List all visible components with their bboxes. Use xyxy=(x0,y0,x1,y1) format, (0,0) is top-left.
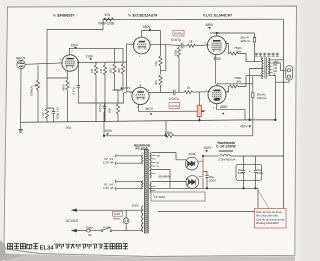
svg-text:487V: 487V xyxy=(204,146,213,150)
wire: jack to EF86 grid xyxy=(25,63,62,64)
svg-text:AC100V: AC100V xyxy=(66,219,79,223)
svg-text:30k: 30k xyxy=(117,68,121,73)
neon lamp NE1 xyxy=(123,210,129,230)
fuse F1 xyxy=(86,229,101,232)
svg-text:3A: 3A xyxy=(88,233,92,237)
capacitor C2 0.47u xyxy=(78,62,79,63)
svg-text:630V: 630V xyxy=(238,171,245,175)
ground symbol xyxy=(18,130,23,133)
resistor R5 20k xyxy=(113,48,116,90)
svg-text:1M: 1M xyxy=(90,68,94,73)
resistor R3 1M xyxy=(94,62,97,121)
svg-text:150k: 150k xyxy=(165,131,172,135)
svg-text:475V: 475V xyxy=(214,57,223,61)
red wire lower rect xyxy=(199,176,203,178)
svg-text:100k(A): 100k(A) xyxy=(30,85,34,96)
svg-text:457V: 457V xyxy=(240,125,249,129)
svg-text:NFB=22dB: NFB=22dB xyxy=(99,22,115,26)
wire: ECC82b plate link xyxy=(149,92,171,94)
tube V2b ECC82 lower xyxy=(131,84,149,104)
wire: OPT top terminal xyxy=(255,58,261,62)
bottom shadow band xyxy=(5,254,295,261)
wire: rectifier bus xyxy=(202,178,204,188)
wire: lower plate line xyxy=(217,84,253,86)
svg-text:15k: 15k xyxy=(154,61,158,66)
wire: EF86 feed sub-rail xyxy=(47,20,103,30)
wire: secondary taps xyxy=(269,60,273,76)
resistor R12 100k xyxy=(177,46,180,93)
svg-text:5W: 5W xyxy=(237,49,242,53)
capacitor block C7 C8 xyxy=(236,156,262,188)
svg-text:khoang 220x400V: khoang 220x400V xyxy=(256,221,279,225)
wire: AC top xyxy=(72,209,143,211)
diode D1 xyxy=(185,157,198,170)
svg-text:0.047μ: 0.047μ xyxy=(169,97,179,101)
wire: 110V row xyxy=(79,44,133,92)
resistor R4 1M xyxy=(103,62,106,122)
svg-text:½ :EF86/6267: ½ :EF86/6267 xyxy=(53,13,74,17)
wire: 300V rail xyxy=(104,135,164,137)
red box lower 0.047u xyxy=(169,103,180,109)
svg-text:1k: 1k xyxy=(189,39,193,43)
svg-text:125mA: 125mA xyxy=(240,39,251,43)
resistor R15 750 lower xyxy=(226,76,253,92)
meter M1 xyxy=(253,33,255,58)
svg-text:0.047μ: 0.047μ xyxy=(174,32,183,36)
wire: B+ link xyxy=(250,119,276,121)
terminal strip FP xyxy=(151,192,205,201)
wire: NFB top line xyxy=(103,18,284,20)
svg-text:0.47μ: 0.47μ xyxy=(98,104,102,112)
corner shadow xyxy=(0,240,25,261)
resistor R2 680 cathode xyxy=(47,71,69,123)
svg-text:20k: 20k xyxy=(109,68,113,73)
svg-text:6042: 6042 xyxy=(189,152,196,156)
svg-text:1M: 1M xyxy=(99,68,103,73)
red box upper 0.047u xyxy=(173,30,184,36)
svg-text:Fuse: Fuse xyxy=(86,225,93,229)
red callout box xyxy=(255,209,287,229)
wire: divider x159 xyxy=(161,31,166,71)
wire: EF86 plate riser xyxy=(69,48,123,55)
svg-text:1.2k: 1.2k xyxy=(41,112,45,118)
potentiometer VR1 100k(A) xyxy=(35,65,40,123)
svg-text:630V: 630V xyxy=(257,171,264,175)
wire: tap 16 to NFB xyxy=(273,59,284,61)
choke CH1 xyxy=(219,150,233,156)
svg-text:0.047μ: 0.047μ xyxy=(171,38,181,42)
svg-text:P-SW: P-SW xyxy=(103,226,111,230)
wire: choke out xyxy=(230,155,283,157)
resistor R1 1.2k xyxy=(45,109,48,123)
tube pin numbers xyxy=(60,33,229,110)
pot wires black xyxy=(198,92,200,121)
svg-text:0.047μ: 0.047μ xyxy=(170,104,179,108)
svg-text:47k: 47k xyxy=(105,13,111,17)
resistor R7 ECC82 cathode xyxy=(113,90,120,122)
svg-text:280V: 280V xyxy=(143,25,152,29)
svg-text:110V: 110V xyxy=(114,212,121,216)
wire: ECC82a plate link xyxy=(150,43,160,45)
svg-text:485V: 485V xyxy=(206,23,215,27)
svg-text:C-10-200W: C-10-200W xyxy=(216,144,236,148)
wire: HV to rectifier xyxy=(152,153,187,189)
svg-text:100μ 12V: 100μ 12V xyxy=(56,107,60,120)
resistor R11 1k xyxy=(184,91,208,94)
svg-text:367V: 367V xyxy=(145,107,154,111)
resistor R14 750 upper xyxy=(226,44,255,62)
red box neon xyxy=(113,211,123,216)
wire: ECC82a plate to 280V rail xyxy=(142,31,161,38)
resistor R10 1k xyxy=(187,44,207,47)
ground bus xyxy=(21,120,250,122)
svg-text:6800: 6800 xyxy=(62,84,66,91)
svg-text:2.5H 400mA: 2.5H 400mA xyxy=(218,157,236,161)
wire: gnd connector xyxy=(165,121,167,136)
wire: tap 0 to speaker and down xyxy=(273,76,289,120)
svg-text:125mA: 125mA xyxy=(257,96,268,100)
svg-text:1k: 1k xyxy=(187,86,191,90)
wire: lower cathode xyxy=(216,104,245,120)
output transformer T2 xyxy=(261,57,270,78)
red leader xyxy=(259,191,270,209)
svg-text:500V: 500V xyxy=(209,179,216,183)
resistor R16 150k xyxy=(164,134,253,137)
wire: gnd drop xyxy=(257,188,259,211)
svg-text:INPUT: INPUT xyxy=(16,56,26,60)
wire: upper cathode xyxy=(215,55,217,84)
wire: OPT bottom terminal xyxy=(253,75,261,77)
wire: to ECC82b grid xyxy=(124,92,127,103)
ground bus PSU xyxy=(149,187,258,189)
svg-text:20k: 20k xyxy=(154,80,158,85)
svg-text:Neon: Neon xyxy=(113,217,120,221)
wire: jack ground drop xyxy=(20,69,22,130)
capacitor C5 0.047u lower xyxy=(171,90,184,96)
wire: heater winding 2 xyxy=(117,181,143,188)
svg-text:EL34: EL34 xyxy=(40,245,55,251)
capacitor C1 100u 12V xyxy=(47,108,55,122)
red group xyxy=(113,30,286,228)
switch SW1 xyxy=(101,227,143,231)
diode D2 xyxy=(186,176,199,189)
power transformer T1 xyxy=(142,149,151,234)
red texts xyxy=(114,32,285,226)
svg-text:100V: 100V xyxy=(132,204,140,208)
potentiometer VR2 (red) xyxy=(197,105,204,116)
svg-text:6.3V 4A: 6.3V 4A xyxy=(103,160,114,164)
resistor R8 15k xyxy=(159,56,162,75)
svg-text:20k: 20k xyxy=(108,108,112,113)
svg-text:V1,V2 :EL34/6CA7: V1,V2 :EL34/6CA7 xyxy=(203,13,232,17)
svg-text:5W: 5W xyxy=(237,80,242,84)
svg-text:50μ: 50μ xyxy=(66,126,71,130)
wire: ECC82b cathode row 367V xyxy=(139,104,198,111)
tube V2a ECC82 upper xyxy=(133,37,150,54)
wire: OPT center tap xyxy=(250,69,261,120)
svg-text:300V: 300V xyxy=(105,129,114,133)
svg-text:485V: 485V xyxy=(220,105,229,109)
label test transformer CJK xyxy=(255,53,279,56)
capacitor C4 0.047u upper xyxy=(161,43,188,49)
svg-text:0.47μ: 0.47μ xyxy=(72,87,76,95)
tube V4 EL34 lower xyxy=(208,86,226,104)
speaker jack SP xyxy=(286,66,293,80)
tube V3 EL34 upper xyxy=(207,36,226,55)
svg-text:100k: 100k xyxy=(174,49,178,56)
wire: choke feed xyxy=(203,155,219,157)
wire: left vertical to cathode xyxy=(46,30,48,109)
wire: right bus xyxy=(283,19,285,211)
label PT taps xyxy=(153,156,161,198)
resistor R9 15k xyxy=(159,75,162,93)
wire: B+ rail 485V xyxy=(210,33,255,36)
wire: tap to speaker xyxy=(273,63,287,70)
svg-text:110V: 110V xyxy=(86,54,94,58)
wire: rail left drop xyxy=(103,112,105,136)
meter M2 xyxy=(252,76,254,136)
red wire upper rect xyxy=(198,156,203,177)
wire: bottom line xyxy=(158,211,284,213)
capacitor C3 0.47u xyxy=(103,103,107,122)
svg-text:PT-4008: PT-4008 xyxy=(136,147,148,151)
input jack J1 xyxy=(17,60,25,68)
resistor R6 30k xyxy=(115,48,125,90)
svg-text:6.3V 4A: 6.3V 4A xyxy=(103,186,114,190)
wire: heater winding 1 xyxy=(117,156,143,163)
title (CJK drawn) xyxy=(8,244,128,252)
svg-text:+: + xyxy=(249,169,251,173)
svg-text:FP 394A: FP 394A xyxy=(154,195,165,199)
svg-text:SD4004A: SD4004A xyxy=(158,175,171,179)
wire: AC bottom xyxy=(72,230,86,232)
wire: PT right tap stubs xyxy=(152,155,156,190)
tube V1 EF86 xyxy=(62,55,79,71)
svg-text:½ :ECC82/12AU7A: ½ :ECC82/12AU7A xyxy=(128,13,158,17)
resistor 47k NFB xyxy=(104,18,114,21)
svg-text:150V: 150V xyxy=(71,43,80,47)
capacitor C6 50u xyxy=(203,172,209,189)
svg-text:▶170V: ▶170V xyxy=(121,86,132,90)
wire: pot risers xyxy=(198,92,200,120)
